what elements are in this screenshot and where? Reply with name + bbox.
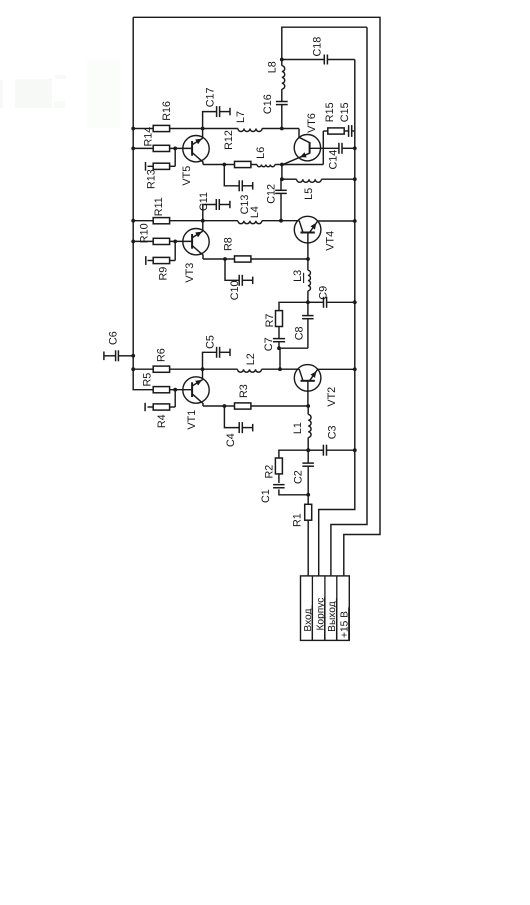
- capacitor C3: [323, 445, 326, 456]
- svg-text:VT6: VT6: [306, 113, 318, 133]
- svg-text:C15: C15: [339, 102, 351, 122]
- wire C8 column: [307, 302, 309, 348]
- svg-text:VT4: VT4: [325, 231, 337, 251]
- capacitor C10: [239, 275, 253, 286]
- resistor R9: [153, 257, 169, 263]
- resistor R7: [276, 311, 283, 327]
- wire base node to L1: [307, 406, 309, 415]
- pin label Выход: [327, 598, 338, 639]
- pin label +15 В: [339, 608, 350, 640]
- pin label Вход: [303, 605, 314, 640]
- svg-text:L5: L5: [303, 188, 315, 200]
- wire L1 to C2 node: [307, 438, 309, 451]
- wire R5 base line: [153, 389, 192, 391]
- svg-text:R2: R2: [264, 465, 276, 479]
- capacitor C15: [349, 125, 352, 137]
- node VT4 base node: [306, 257, 310, 261]
- label C8: [294, 326, 306, 340]
- wire output riser to rail: [282, 27, 367, 59]
- label C5: [205, 335, 217, 349]
- capacitor C9: [324, 297, 327, 308]
- transistor VT1: [183, 377, 209, 406]
- pin label Корпус: [315, 597, 326, 640]
- svg-text:L1: L1: [292, 422, 304, 434]
- svg-text:VT1: VT1: [186, 410, 198, 430]
- node X5 stage3: [201, 127, 205, 131]
- label R8: [223, 237, 235, 251]
- wire C16 riser: [281, 89, 283, 128]
- wire stage3 upper line X5 to L7: [203, 128, 238, 130]
- svg-text:VT3: VT3: [184, 263, 196, 283]
- svg-text:L6: L6: [255, 147, 267, 159]
- resistor R15: [328, 128, 344, 134]
- wire VT3 emitter riser: [202, 221, 204, 232]
- wire R2C1 branch: [279, 450, 308, 495]
- resistor R1: [305, 504, 312, 520]
- capacitor C7: [273, 339, 285, 342]
- wire C11 stub: [203, 205, 230, 221]
- node base VT3: [173, 240, 177, 244]
- resistor R10: [153, 238, 169, 244]
- label VT6: [306, 113, 318, 133]
- svg-text:VT5: VT5: [181, 166, 193, 186]
- capacitor C2: [302, 463, 314, 466]
- capacitor C8: [302, 316, 314, 319]
- node rail-R6: [131, 367, 135, 371]
- label R9: [158, 267, 170, 281]
- node stage1 coupling riser: [278, 367, 282, 371]
- node R1 top: [306, 493, 310, 497]
- label R7: [264, 314, 276, 328]
- wire C4 stub: [224, 406, 252, 428]
- label C10: [229, 280, 241, 300]
- node rail-R11: [131, 219, 135, 223]
- node rail-R14: [131, 147, 135, 151]
- svg-text:R13: R13: [146, 169, 158, 189]
- wire stage2 upper line X2 to L4: [203, 220, 238, 222]
- transistor VT2: [294, 365, 321, 392]
- inductor L1: [308, 415, 311, 438]
- wire R4 to base node: [148, 390, 176, 407]
- capacitor C13: [239, 180, 253, 191]
- label VT5: [181, 166, 193, 186]
- label L6: [255, 147, 267, 159]
- label C18: [311, 37, 323, 57]
- label C6: [108, 331, 120, 345]
- svg-text:C4: C4: [225, 433, 237, 447]
- label R10: [139, 223, 151, 243]
- wire C6 stub: [104, 355, 133, 357]
- capacitor C5: [217, 347, 230, 358]
- wire +15V left distribution rail: [133, 17, 153, 389]
- wire VT1 collector line: [203, 405, 308, 407]
- wire L2 to VT2 collector: [262, 368, 300, 370]
- svg-text:C2: C2: [292, 470, 304, 484]
- capacitor C12: [275, 190, 287, 193]
- label C3: [326, 425, 338, 439]
- connector X1 box: [301, 576, 350, 641]
- transistor VT3: [183, 229, 209, 260]
- label R1: [291, 513, 303, 527]
- svg-text:R15: R15: [324, 102, 336, 122]
- svg-text:R14: R14: [143, 127, 155, 147]
- resistor R16: [153, 125, 169, 131]
- node base VT5: [173, 147, 177, 151]
- capacitor C17: [217, 106, 230, 117]
- wire R15 leads: [323, 130, 355, 132]
- inductor L3: [308, 270, 311, 291]
- label R12: [223, 130, 235, 150]
- node X2 stage2: [201, 219, 205, 223]
- svg-text:C14: C14: [327, 150, 339, 170]
- label R6: [155, 348, 167, 362]
- label C17: [204, 87, 216, 107]
- node C3-ground: [353, 448, 357, 452]
- wire L8 top to node A: [281, 60, 283, 66]
- resistor R5: [153, 387, 169, 393]
- resistor R6: [153, 366, 169, 372]
- wire C3 link: [308, 449, 355, 451]
- inductor L6: [257, 165, 275, 167]
- svg-text:R11: R11: [153, 197, 165, 216]
- node emitter-ground stage1: [353, 367, 357, 371]
- capacitor C18: [324, 55, 327, 65]
- label R3: [238, 384, 250, 398]
- node stage2 coupling riser: [279, 219, 283, 223]
- node L5-ground: [353, 177, 357, 181]
- wire L5 line: [282, 178, 355, 180]
- label VT3: [184, 263, 196, 283]
- svg-text:C1: C1: [260, 489, 272, 503]
- svg-text:L3: L3: [292, 270, 304, 282]
- wire stage1 upper line X1 to L2: [203, 368, 238, 370]
- label L2: [245, 353, 257, 365]
- wire: [0, 60, 120, 128]
- wire VT6 collector riser: [298, 129, 300, 138]
- wire VT1 emitter riser: [202, 369, 204, 379]
- wire VT3 collector line: [203, 258, 308, 260]
- wire C10 stub: [225, 259, 253, 280]
- node VT6 collector junction: [280, 127, 284, 131]
- wire stage1 upper line R6 to X1 node: [133, 368, 202, 370]
- node rail-R10: [131, 240, 135, 244]
- wire R9 link: [148, 241, 176, 260]
- svg-text:C13: C13: [239, 195, 251, 215]
- node coupling top: [306, 300, 310, 304]
- label R4: [156, 414, 168, 428]
- svg-text:R5: R5: [142, 373, 154, 387]
- resistor R3: [235, 403, 251, 409]
- terminal bar R9: [145, 256, 147, 265]
- resistor R4: [153, 404, 169, 410]
- label L7: [235, 111, 247, 123]
- wire R1 column: [307, 495, 309, 576]
- wire L3 column: [307, 259, 309, 302]
- label R16: [161, 101, 173, 121]
- svg-text:L7: L7: [235, 111, 247, 123]
- svg-text:R16: R16: [161, 101, 173, 121]
- node C13 tap: [222, 163, 226, 167]
- label R13: [146, 169, 158, 189]
- wire C9 link: [308, 301, 355, 303]
- wire C7R7 column: [279, 302, 308, 348]
- svg-text:C16: C16: [262, 94, 274, 114]
- svg-text:R8: R8: [223, 237, 235, 251]
- wire output rail (Выход): [331, 27, 367, 576]
- node rail-C6: [131, 354, 135, 358]
- svg-text:C9: C9: [317, 286, 329, 300]
- svg-text:R10: R10: [139, 223, 151, 243]
- label R14: [143, 127, 155, 147]
- transistor VT6: [283, 135, 321, 165]
- transistor VT5: [183, 136, 209, 165]
- node VT2 base node: [306, 404, 310, 408]
- inductor L5: [297, 179, 322, 182]
- label C13: [239, 195, 251, 215]
- terminal bar R13: [145, 162, 147, 171]
- inductor L4: [238, 221, 262, 224]
- svg-text:C6: C6: [108, 331, 120, 345]
- wire coupling bottom link: [279, 347, 308, 349]
- wire R15 drop: [322, 131, 324, 165]
- wire L7 to collector junction: [262, 128, 299, 130]
- wire C12 riser: [280, 179, 282, 221]
- label C7: [263, 337, 275, 351]
- capacitor C6: [104, 350, 119, 361]
- label R5: [142, 373, 154, 387]
- node emitter-ground stage2: [353, 219, 357, 223]
- label C4: [225, 433, 237, 447]
- wire VT4 emitter to ground rail: [318, 220, 355, 222]
- wire ground rail (Корпус): [319, 60, 355, 576]
- label R15: [324, 102, 336, 122]
- svg-text:R1: R1: [291, 513, 303, 527]
- svg-text:C17: C17: [204, 87, 216, 107]
- resistor R12: [235, 161, 251, 167]
- label C11: [198, 192, 210, 211]
- svg-text:C11: C11: [198, 192, 210, 211]
- wire +15V top and right rail to connector: [133, 17, 380, 576]
- svg-text:R3: R3: [238, 384, 250, 398]
- resistor R8: [235, 256, 251, 262]
- wire VT6 emitter line: [282, 164, 323, 166]
- capacitor C11: [216, 199, 230, 210]
- wire C5 stub: [203, 352, 231, 369]
- label VT4: [325, 231, 337, 251]
- wire VT2 emitter to ground rail: [318, 368, 355, 370]
- wire L6 to emitter junction: [275, 164, 282, 166]
- inductor L8: [282, 66, 285, 89]
- wire R13 link: [148, 148, 176, 166]
- capacitor C1: [273, 485, 285, 488]
- resistor R14: [153, 145, 169, 151]
- svg-text:L2: L2: [245, 353, 257, 365]
- resistor R2: [275, 458, 282, 474]
- svg-text:C10: C10: [229, 280, 241, 300]
- node C9-ground: [353, 300, 357, 304]
- svg-text:C8: C8: [294, 326, 306, 340]
- wire C13 stub: [224, 165, 252, 186]
- wire C18 link: [282, 59, 355, 61]
- wire stage3 upper line: [133, 128, 202, 130]
- svg-text:R6: R6: [155, 348, 167, 362]
- label L1: [292, 422, 304, 434]
- label VT1: [186, 410, 198, 430]
- label C12: [265, 184, 277, 204]
- node A output: [280, 58, 284, 62]
- label C9: [317, 286, 329, 300]
- wire VT2 base lead: [307, 381, 309, 406]
- capacitor C14: [339, 143, 342, 154]
- label R2: [264, 465, 276, 479]
- wire C17 stub: [203, 112, 230, 129]
- svg-text:VT2: VT2: [326, 387, 338, 407]
- terminal bar R4: [144, 403, 146, 411]
- wire VT5 emitter riser: [202, 129, 204, 139]
- capacitor C16: [276, 102, 288, 105]
- node C10 tap: [223, 257, 227, 261]
- wire VT4 base lead: [307, 233, 309, 260]
- svg-text:R7: R7: [264, 314, 276, 328]
- label C15: [339, 102, 351, 122]
- wire R10 base line: [133, 240, 192, 242]
- wire stage2 upper line: [133, 220, 203, 222]
- wire VT5 collector line: [203, 164, 257, 166]
- node coupling bottom: [277, 346, 281, 350]
- svg-text:R4: R4: [156, 414, 168, 428]
- svg-text:R9: R9: [158, 267, 170, 281]
- svg-text:C3: C3: [326, 425, 338, 439]
- capacitor C4: [239, 422, 253, 433]
- svg-text:C7: C7: [263, 337, 275, 351]
- node rail-R16: [131, 127, 135, 131]
- node input C3 node: [306, 448, 310, 452]
- wire C2 column: [307, 450, 309, 495]
- wire VT6 base line: [310, 147, 355, 149]
- wire R14 base line: [133, 147, 192, 149]
- label C2: [292, 470, 304, 484]
- label VT2: [326, 387, 338, 407]
- label C1: [260, 489, 272, 503]
- label L8: [267, 61, 279, 73]
- transistor VT4: [294, 216, 321, 243]
- node L5 junction: [280, 177, 284, 181]
- wire coupling riser: [279, 348, 281, 369]
- resistor R13: [153, 163, 169, 169]
- node X1 stage1: [201, 367, 205, 371]
- node C4 tap: [223, 404, 227, 408]
- label L5: [303, 188, 315, 200]
- label R11: [153, 197, 165, 216]
- label L3: [292, 270, 304, 283]
- inductor L2: [238, 369, 262, 372]
- node VT6 emitter junction: [280, 163, 284, 167]
- inductor L7: [238, 129, 262, 132]
- label C16: [262, 94, 274, 114]
- resistor R11: [153, 218, 169, 224]
- svg-text:C18: C18: [311, 37, 323, 57]
- svg-text:C5: C5: [205, 335, 217, 349]
- svg-text:L8: L8: [267, 61, 279, 73]
- svg-text:R12: R12: [223, 130, 235, 150]
- label L4: [249, 206, 261, 218]
- node base VT1: [173, 388, 177, 392]
- node C14-ground: [353, 146, 357, 150]
- svg-text:C12: C12: [265, 184, 277, 204]
- wire L4 to VT4 collector: [262, 220, 299, 222]
- wire VT6 emitter junction link: [281, 165, 283, 180]
- label C14: [327, 150, 339, 170]
